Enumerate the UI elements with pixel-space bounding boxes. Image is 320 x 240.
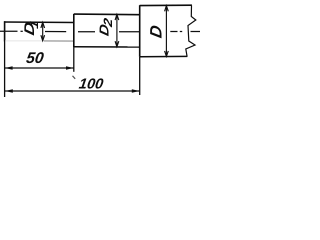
label 50: [25, 50, 45, 67]
dimension D2 arrow: [115, 15, 119, 47]
extension line left (50/100 dims): [4, 42, 6, 98]
svg-text:50: 50: [25, 50, 45, 67]
extension line step1 (50 dim): [73, 47, 75, 72]
extension line step2 (100 dim): [139, 57, 141, 95]
break line zigzag: [186, 5, 196, 56]
dimension line 100: [5, 89, 140, 93]
svg-text:100: 100: [78, 76, 104, 92]
section 2 top edge: [74, 13, 141, 16]
section 3 top edge: [140, 4, 192, 6]
section 2 bottom edge: [74, 46, 141, 48]
shoulder step 1-2 with extension line: [73, 14, 75, 47]
label 100: [78, 76, 104, 92]
dimension D1 arrow: [41, 22, 45, 41]
dimension D arrow: [165, 6, 169, 57]
section 3 bottom edge: [140, 55, 188, 57]
section 1 top edge: [4, 21, 74, 24]
wire shaft left end face: [4, 21, 6, 41]
dimension line 50: [5, 66, 74, 70]
section 1 bottom edge faint part: [5, 40, 44, 42]
stray scan mark: [73, 76, 76, 79]
centerline dash-dot: [0, 30, 200, 33]
shoulder step 2-3 with extension line: [139, 5, 141, 57]
section 1 bottom edge visible part: [44, 40, 74, 42]
